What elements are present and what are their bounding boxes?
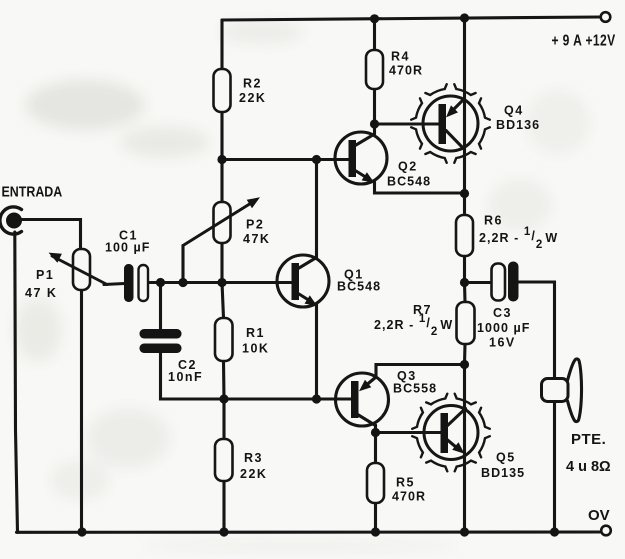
node R1 top [217,278,226,287]
wire P2 wiper tie [181,246,184,283]
svg-text:BD135: BD135 [481,466,525,480]
node Q2 emitter R6 [460,189,469,198]
wire R4 bottom to Q4 base node [373,89,376,124]
wire R1 top [222,283,224,319]
node Q4 top [460,13,469,22]
transistor Q3 emitter [364,377,376,387]
input jack inner pin [6,213,22,229]
wire Q3 base line [161,397,355,400]
resistor R3 [215,439,233,481]
wire R3 bottom [222,481,225,532]
wire R6 bottom [463,256,466,283]
svg-text:4 u 8Ω: 4 u 8Ω [566,459,611,475]
wire Q5 column vertical [463,365,466,533]
transistor Q5 collector [448,409,466,426]
wire R2 bottom to node [220,112,223,160]
svg-text:R5: R5 [396,476,415,490]
capacitor C1 plate outline [139,265,149,301]
svg-text:P1: P1 [36,268,54,282]
transistor Q1 emitter [299,294,312,302]
svg-text:+ 9 A +12V: + 9 A +12V [552,31,616,49]
wire P2 bottom [220,243,223,283]
svg-text:100 µF: 100 µF [105,241,150,255]
resistor R5 [367,463,384,503]
wire speaker bottom [553,402,556,533]
node Q3 collector R5 [371,428,380,437]
transistor Q1 circle [277,255,329,307]
node dots [77,13,559,536]
resistor R7 [457,302,475,344]
svg-text:16V: 16V [489,336,516,350]
node R2 bottom [217,155,226,164]
node rail R3 [219,527,228,536]
wire top rail [222,17,601,20]
node rail R5 [371,527,380,536]
transistor Q4 collector [446,131,464,150]
node rail Q5 [460,527,469,536]
wire R2 column top [220,20,223,69]
node Q1 emitter Q3 base [312,394,321,403]
svg-text:R3: R3 [244,451,263,465]
wire Q3 collector to Q5 base [376,425,441,433]
svg-text:R6: R6 [484,214,503,228]
wire R3 column [222,399,225,439]
transistor Q2 emitter [356,171,369,179]
potentiometer P2 body [214,202,231,243]
node rail P1 [77,527,86,536]
svg-text:470R: 470R [389,64,423,78]
transistor Q4 circle [423,96,478,151]
potentiometer P1 body [73,249,90,290]
svg-text:10K: 10K [242,342,269,356]
svg-text:BC548: BC548 [337,280,381,294]
transistor Q2 base bar [349,140,357,177]
wire Q4 base line [375,122,439,125]
wire R6 top [463,194,466,216]
wire R1 bottom [222,361,226,399]
svg-text:Q5: Q5 [496,451,516,465]
wire Q1 collector column [315,160,318,258]
capacitor C2 plate bottom [140,344,182,354]
node Q4 base [370,119,379,128]
wire R4 column top [373,19,376,50]
svg-text:10nF: 10nF [168,370,203,384]
svg-text:OV: OV [588,507,610,524]
transistor Q5 base bar [441,413,449,453]
transistor Q1 base bar [292,263,300,300]
transistor Q2 circle [335,132,387,184]
wire C2 bottom to ground node [159,353,163,400]
wire Q3 emitter run [376,365,465,378]
wire Q1 emitter column [315,304,318,399]
transistor Q1 collector [299,257,317,268]
node R1 R3 [219,394,228,403]
svg-text:BC548: BC548 [387,175,431,189]
svg-text:R1: R1 [246,326,265,340]
svg-text:R2: R2 [243,77,262,91]
transistor Q3 base bar [351,381,359,418]
node R6 C3 R7 [460,278,469,287]
wire base line Q2 [222,158,352,161]
resistor R4 [366,50,383,89]
wire P2 column [220,160,223,202]
terminal +V [601,12,611,22]
wire C1 to Q1 base [148,281,293,284]
terminal 0V [601,526,611,536]
node R7 Q5 [460,360,469,369]
speaker cone [568,359,582,422]
svg-text:C3: C3 [493,306,512,320]
wire C2 top [159,283,162,330]
wire R5 bottom [374,503,377,532]
transistor Q3 circle [336,373,389,426]
wire left column [15,232,18,532]
node Q1 collector [312,155,321,164]
svg-text:Q2: Q2 [398,160,418,174]
node rail speaker [550,527,559,536]
node P2 wiper [178,278,187,287]
svg-text:1000 µF: 1000 µF [477,321,530,335]
svg-text:PTE.: PTE. [571,431,606,448]
capacitor C1 plate solid [124,264,134,302]
svg-text:47 K: 47 K [25,286,57,300]
potentiometer P1 wiper [52,256,107,285]
svg-text:R4: R4 [391,50,410,64]
transistor Q2 collector [356,125,375,145]
wire R7 top [463,283,467,303]
wire C3 to speaker column [519,282,555,379]
svg-text:47K: 47K [243,232,270,246]
transistor Q4 heatsink dashes [411,84,490,163]
svg-text:22K: 22K [239,91,266,105]
speaker box PTE [542,379,569,402]
capacitor C3 plate solid [508,262,519,302]
svg-text:ENTRADA: ENTRADA [2,184,63,200]
wire Q4 column vertical [463,18,466,194]
capacitor C3 plate outline [492,264,506,301]
transistor Q4 base bar [439,104,447,144]
wire input node horizontal [104,284,125,285]
wire node to C3 [465,281,492,284]
resistor R1 [215,318,233,361]
transistor Q4 emitter [451,100,464,113]
svg-text:P2: P2 [246,218,264,232]
svg-text:470R: 470R [392,490,426,504]
transistor Q5 circle [424,406,478,460]
resistor R2 [214,69,231,112]
transistor Q3 collector [356,414,376,426]
capacitor C2 plate top [140,329,182,339]
input jack ENTRADA outer ring [0,207,21,234]
wire R7 bottom [463,344,467,365]
resistor R6 [456,215,473,256]
potentiometer P2 wiper [183,200,256,246]
wire bottom rail [17,530,602,533]
svg-text:22K: 22K [240,467,267,481]
node C1 C2 [156,278,165,287]
wire P1 bottom column [80,290,83,532]
wire R5 top [374,433,377,464]
wire Q2 emitter run [375,181,465,193]
wire jack to P1 top [21,220,81,250]
transistor Q5 emitter [448,440,460,450]
svg-text:BC558: BC558 [393,382,437,396]
svg-text:Q4: Q4 [504,104,524,118]
node R4 top [370,14,379,23]
transistor Q5 heatsink dashes [412,394,490,472]
svg-text:BD136: BD136 [496,118,540,132]
